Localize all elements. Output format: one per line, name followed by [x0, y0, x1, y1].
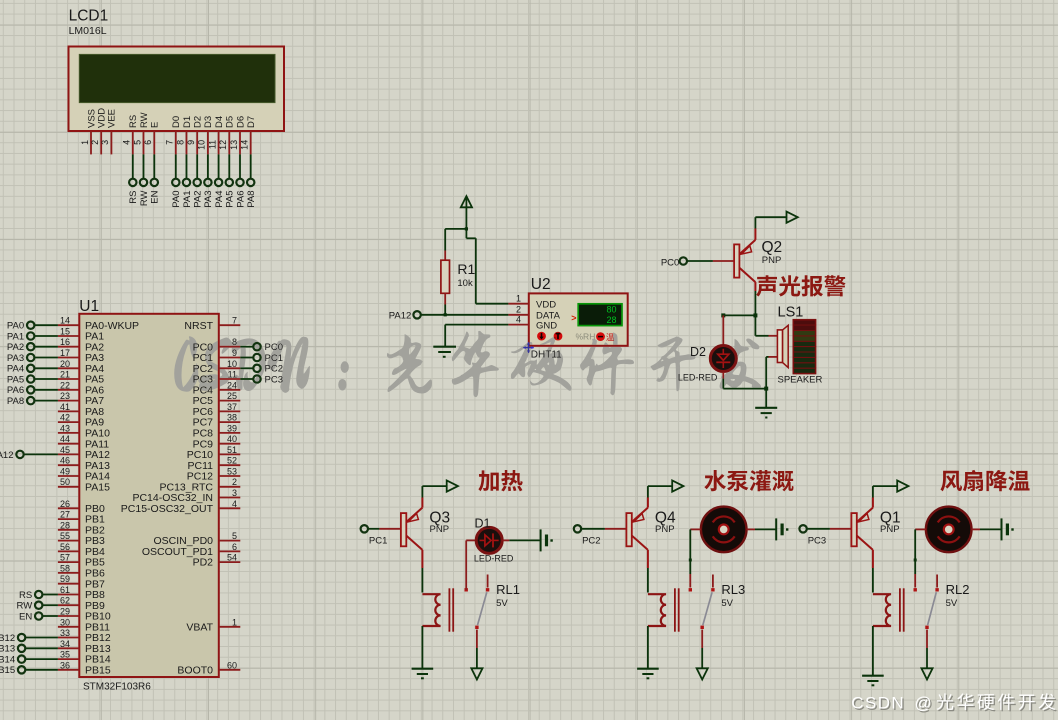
svg-text:PA5: PA5 — [7, 374, 24, 385]
svg-text:D4: D4 — [214, 116, 225, 128]
svg-text:59: 59 — [60, 574, 70, 584]
svg-text:D0: D0 — [171, 116, 182, 128]
svg-text:CSDN: CSDN — [851, 694, 905, 713]
svg-text:@: @ — [915, 694, 932, 713]
svg-text:13: 13 — [229, 140, 239, 150]
svg-text:1: 1 — [232, 617, 237, 627]
svg-text:5: 5 — [232, 531, 237, 541]
svg-text:PNP: PNP — [762, 255, 782, 266]
svg-text:9: 9 — [186, 140, 196, 145]
svg-text:5V: 5V — [946, 598, 958, 609]
svg-text:10: 10 — [227, 359, 237, 369]
svg-text:GND: GND — [536, 320, 557, 331]
svg-text:VDD: VDD — [536, 299, 556, 310]
svg-text:36: 36 — [60, 660, 70, 670]
svg-text:PA0: PA0 — [7, 321, 24, 332]
svg-text:53: 53 — [227, 467, 237, 477]
svg-text:39: 39 — [227, 423, 237, 433]
svg-text:21: 21 — [60, 370, 70, 380]
svg-text:PA3: PA3 — [7, 353, 24, 364]
svg-text:28: 28 — [60, 520, 70, 530]
svg-text:33: 33 — [60, 628, 70, 638]
svg-text:6: 6 — [143, 140, 153, 145]
svg-text:50: 50 — [60, 477, 70, 487]
svg-text:D1: D1 — [475, 517, 491, 531]
svg-text:PA15: PA15 — [85, 481, 110, 493]
svg-text:LS1: LS1 — [778, 305, 804, 321]
svg-text:3: 3 — [100, 140, 110, 145]
svg-text:PB15: PB15 — [85, 664, 111, 676]
svg-text:6: 6 — [232, 542, 237, 552]
svg-text:PA8: PA8 — [7, 396, 24, 407]
svg-text:STM32F103R6: STM32F103R6 — [83, 682, 151, 693]
svg-text:12: 12 — [218, 140, 228, 150]
svg-text:PA3: PA3 — [203, 191, 214, 208]
svg-text:PA12: PA12 — [0, 450, 14, 461]
svg-text:5V: 5V — [496, 598, 508, 609]
svg-text:PB12: PB12 — [0, 633, 15, 644]
svg-text:29: 29 — [60, 607, 70, 617]
svg-text:5V: 5V — [721, 598, 733, 609]
svg-text:4: 4 — [122, 140, 132, 145]
svg-text:16: 16 — [60, 337, 70, 347]
svg-text:15: 15 — [60, 327, 70, 337]
svg-text:22: 22 — [60, 380, 70, 390]
svg-text:PC3: PC3 — [265, 374, 283, 385]
svg-text:D7: D7 — [246, 116, 257, 128]
svg-text:11: 11 — [207, 140, 217, 149]
svg-text:37: 37 — [227, 402, 237, 412]
svg-text:RL1: RL1 — [496, 582, 520, 597]
svg-text:35: 35 — [60, 650, 70, 660]
svg-text:U1: U1 — [79, 298, 99, 315]
svg-text:BOOT0: BOOT0 — [177, 664, 213, 676]
svg-text:D5: D5 — [225, 116, 236, 128]
svg-text:PB13: PB13 — [0, 644, 15, 655]
svg-text:55: 55 — [60, 531, 70, 541]
svg-text:41: 41 — [60, 402, 70, 412]
svg-text:52: 52 — [227, 456, 237, 466]
svg-text:10: 10 — [197, 140, 207, 150]
svg-text:28: 28 — [606, 315, 616, 325]
svg-text:25: 25 — [227, 391, 237, 401]
svg-text:5: 5 — [132, 140, 142, 145]
svg-text:PNP: PNP — [655, 524, 675, 535]
svg-text:26: 26 — [60, 499, 70, 509]
svg-text:D6: D6 — [235, 116, 246, 128]
svg-text:RS: RS — [19, 590, 32, 601]
svg-text:PC15-OSC32_OUT: PC15-OSC32_OUT — [121, 503, 214, 515]
svg-text:11: 11 — [228, 370, 237, 380]
svg-text:PA4: PA4 — [7, 364, 24, 375]
svg-text:LCD1: LCD1 — [69, 8, 109, 25]
svg-text:24: 24 — [227, 380, 237, 390]
svg-text:PA1: PA1 — [7, 331, 24, 342]
svg-text:42: 42 — [60, 413, 70, 423]
svg-text:PA1: PA1 — [182, 191, 193, 208]
svg-text:54: 54 — [227, 553, 237, 563]
svg-text:7: 7 — [232, 316, 237, 326]
svg-text:PA2: PA2 — [193, 191, 204, 208]
svg-text:80: 80 — [606, 305, 616, 315]
svg-text:7: 7 — [165, 140, 175, 145]
svg-text:57: 57 — [60, 553, 70, 563]
svg-text:LM016L: LM016L — [69, 25, 107, 37]
svg-text:46: 46 — [60, 456, 70, 466]
svg-text:10k: 10k — [457, 278, 473, 289]
svg-text:D3: D3 — [203, 116, 214, 128]
svg-text:RW: RW — [139, 190, 150, 206]
svg-text:RL3: RL3 — [721, 582, 745, 597]
svg-text:51: 51 — [227, 445, 237, 455]
svg-text:SPEAKER: SPEAKER — [778, 374, 823, 385]
svg-text:PA8: PA8 — [246, 191, 257, 208]
svg-text:2: 2 — [516, 305, 521, 315]
svg-text:45: 45 — [60, 445, 70, 455]
svg-text:PA2: PA2 — [7, 342, 24, 353]
svg-text:PC1: PC1 — [369, 536, 387, 547]
svg-text:4: 4 — [232, 499, 237, 509]
svg-text:40: 40 — [227, 434, 237, 444]
svg-text:27: 27 — [60, 510, 70, 520]
svg-text:20: 20 — [60, 359, 70, 369]
svg-text:1: 1 — [516, 294, 521, 304]
svg-text:14: 14 — [240, 140, 250, 150]
svg-text:RS: RS — [128, 191, 139, 204]
svg-text:Q2: Q2 — [762, 239, 783, 256]
svg-text:RW: RW — [139, 112, 150, 128]
svg-text:>: > — [571, 313, 576, 323]
svg-text:44: 44 — [60, 434, 70, 444]
svg-text:U2: U2 — [531, 276, 551, 293]
svg-text:PD2: PD2 — [193, 557, 214, 569]
svg-text:NRST: NRST — [184, 320, 213, 332]
svg-text:62: 62 — [60, 596, 70, 606]
svg-text:49: 49 — [60, 467, 70, 477]
svg-text:R1: R1 — [457, 261, 475, 277]
svg-text:2: 2 — [90, 140, 100, 145]
svg-text:PA6: PA6 — [7, 385, 24, 396]
svg-text:4: 4 — [516, 314, 521, 324]
svg-text:8: 8 — [175, 140, 185, 145]
svg-text:PC3: PC3 — [808, 536, 826, 547]
svg-text:LED-RED: LED-RED — [474, 554, 514, 564]
svg-text:60: 60 — [227, 660, 237, 670]
svg-text:EN: EN — [19, 611, 32, 622]
svg-text:PC0: PC0 — [661, 258, 679, 269]
svg-text:23: 23 — [60, 391, 70, 401]
svg-text:RW: RW — [17, 601, 33, 612]
svg-text:PC2: PC2 — [582, 536, 600, 547]
svg-text:PB15: PB15 — [0, 665, 15, 676]
svg-text:3: 3 — [232, 488, 237, 498]
svg-text:38: 38 — [227, 413, 237, 423]
svg-text:PA12: PA12 — [389, 310, 412, 321]
svg-text:PA0: PA0 — [171, 191, 182, 208]
svg-text:43: 43 — [60, 423, 70, 433]
svg-text:PNP: PNP — [430, 524, 450, 535]
svg-text:PNP: PNP — [880, 524, 900, 535]
svg-text:VEE: VEE — [107, 109, 118, 128]
svg-text:PA6: PA6 — [235, 190, 246, 207]
svg-text:30: 30 — [60, 617, 70, 627]
svg-text:17: 17 — [60, 348, 70, 358]
svg-text:1: 1 — [80, 140, 90, 145]
svg-text:56: 56 — [60, 542, 70, 552]
svg-text:D1: D1 — [182, 116, 193, 128]
svg-text:EN: EN — [150, 190, 161, 203]
svg-text:14: 14 — [60, 316, 70, 326]
svg-text:61: 61 — [60, 585, 70, 595]
svg-text:RS: RS — [128, 115, 139, 128]
svg-text:PB14: PB14 — [0, 655, 15, 666]
svg-text:VBAT: VBAT — [186, 621, 213, 633]
svg-text:34: 34 — [60, 639, 70, 649]
svg-text:RL2: RL2 — [946, 582, 970, 597]
svg-text:58: 58 — [60, 563, 70, 573]
svg-text:2: 2 — [232, 477, 237, 487]
svg-text:PA4: PA4 — [214, 191, 225, 208]
svg-text:D2: D2 — [193, 116, 204, 128]
svg-text:LED-RED: LED-RED — [678, 373, 718, 383]
svg-text:PA5: PA5 — [225, 191, 236, 208]
svg-text:E: E — [150, 122, 161, 128]
